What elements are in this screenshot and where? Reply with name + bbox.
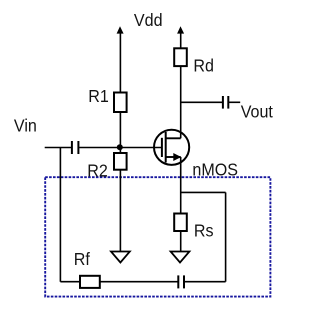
Vdd arrow left <box>117 26 124 33</box>
transistor drain stub <box>166 137 181 139</box>
wire Rd to drain <box>180 66 182 138</box>
capacitor Cout <box>222 96 224 109</box>
wire Vout tap <box>181 101 222 103</box>
wire feedback bottom right segment <box>185 281 226 283</box>
capacitor Cf <box>177 275 179 288</box>
wire gate (Vin line) <box>45 147 71 149</box>
wire Vdd right rail <box>180 30 182 48</box>
svg-text:Rd: Rd <box>193 56 214 76</box>
Vdd arrow right <box>177 26 184 33</box>
svg-text:nMOS: nMOS <box>192 160 238 180</box>
transistor source arrow <box>173 153 181 161</box>
resistor Rf <box>80 276 100 288</box>
wire Vdd left rail <box>119 30 121 93</box>
svg-text:Vin: Vin <box>14 116 37 136</box>
svg-text:Rs: Rs <box>194 221 214 241</box>
wire feedback bottom middle segment <box>100 281 178 283</box>
transistor gate bar <box>161 138 163 157</box>
node Vg junction dot <box>117 144 123 150</box>
wire feedback top branch <box>181 191 226 193</box>
transistor channel bar <box>165 132 167 163</box>
svg-text:R2: R2 <box>87 161 108 181</box>
svg-text:Rf: Rf <box>74 249 90 269</box>
wire Rs to ground <box>180 231 182 252</box>
wire R1 to junction <box>119 112 121 153</box>
resistor Rs <box>174 214 187 232</box>
resistor Rd <box>174 48 187 66</box>
svg-text:R1: R1 <box>88 86 109 106</box>
dashed feedback box <box>45 177 270 296</box>
wire Vout stub <box>229 101 240 103</box>
resistor R2 <box>114 153 127 170</box>
wire source down to Rs <box>180 157 182 214</box>
capacitor Cin <box>71 141 73 154</box>
resistor R1 <box>114 93 127 113</box>
ground right <box>171 252 190 263</box>
op: transistor nMOS body circle <box>154 130 189 165</box>
svg-text:Vout: Vout <box>241 102 274 122</box>
wire cap to gate <box>79 147 161 149</box>
transistor source stub <box>166 156 181 158</box>
wire feedback right vertical <box>225 192 227 281</box>
wire feedback bottom left segment <box>60 281 80 283</box>
svg-text:Vdd: Vdd <box>134 10 163 30</box>
wire feedback left vertical <box>59 148 61 282</box>
wire R2 to ground <box>119 170 121 252</box>
ground left <box>111 252 130 263</box>
